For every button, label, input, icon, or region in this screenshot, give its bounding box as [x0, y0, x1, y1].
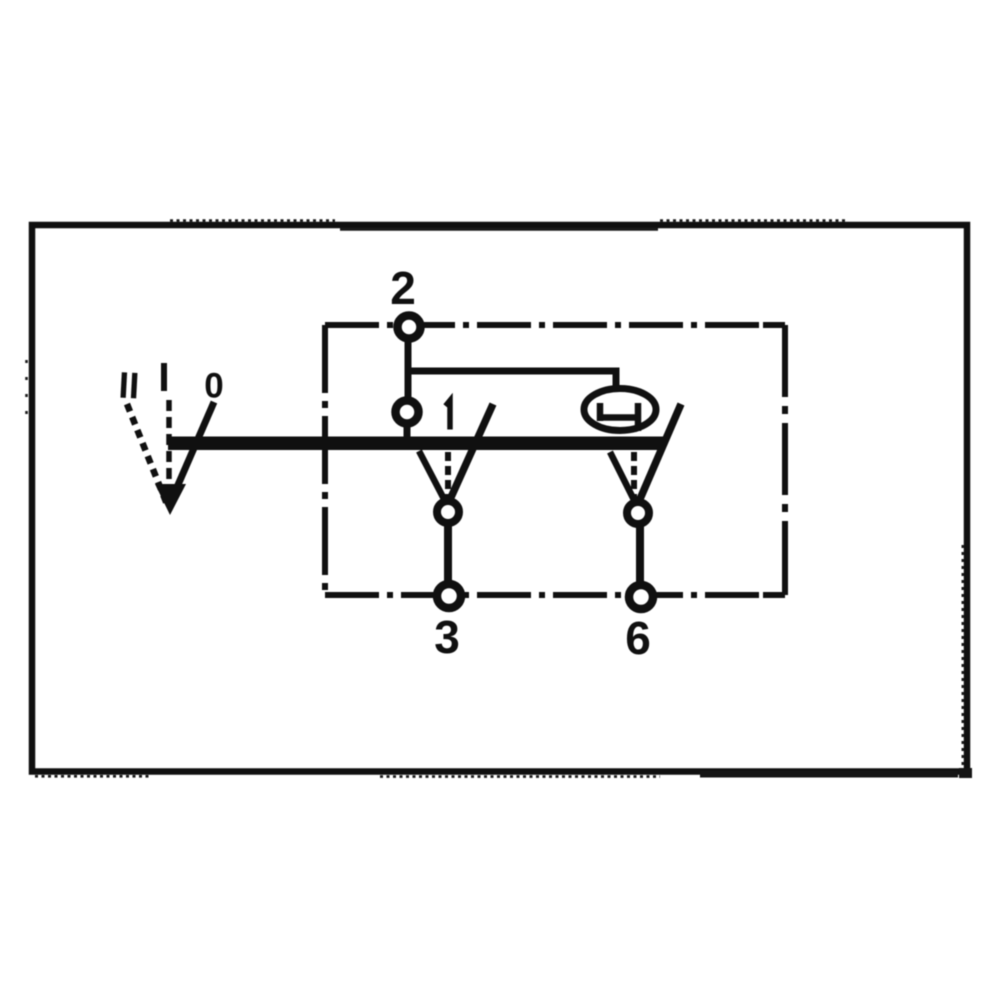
svg-text:2: 2 — [390, 262, 416, 314]
svg-text:II: II — [118, 364, 141, 406]
svg-text:0: 0 — [204, 367, 223, 406]
svg-text:6: 6 — [625, 612, 651, 664]
svg-text:3: 3 — [434, 611, 460, 663]
